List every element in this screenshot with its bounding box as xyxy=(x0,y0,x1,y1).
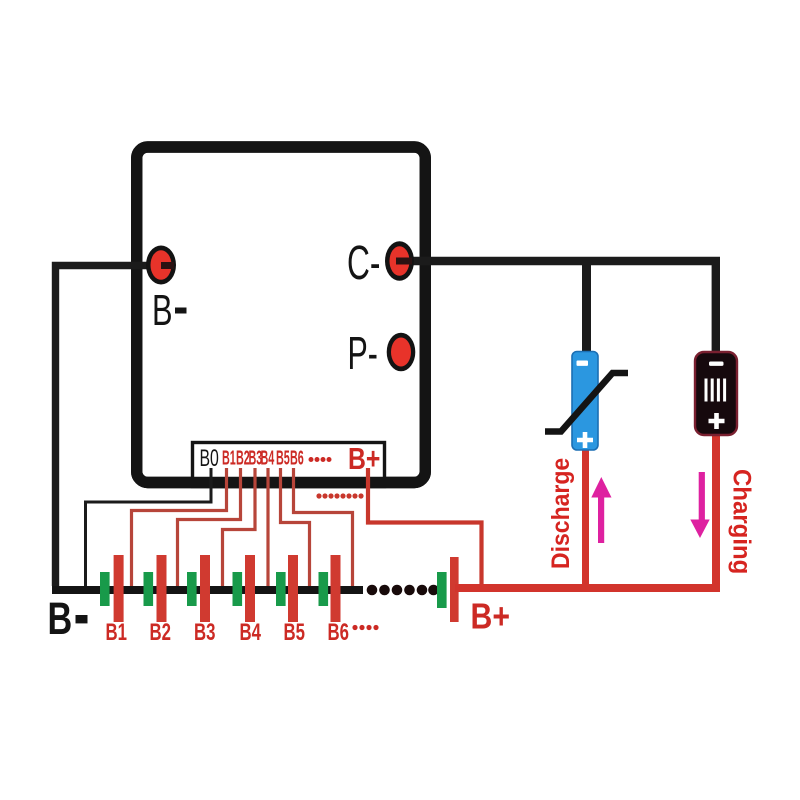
svg-text:B+: B+ xyxy=(348,441,380,475)
terminal C- xyxy=(385,241,414,281)
ellipsis dots battery string xyxy=(367,585,439,596)
arrow charging (down) xyxy=(690,472,709,538)
switch stroke on Q1 xyxy=(545,373,628,432)
svg-text:B2: B2 xyxy=(236,447,250,469)
cell B4 electrodes xyxy=(233,572,243,606)
board border over strip xyxy=(137,147,426,483)
svg-text:B3: B3 xyxy=(194,619,215,646)
svg-text:B: B xyxy=(152,287,173,336)
svg-text:B5: B5 xyxy=(276,447,290,469)
wire B5 sense xyxy=(281,468,310,586)
arrow discharge (up) xyxy=(591,477,611,543)
cell B1 electrodes xyxy=(100,572,110,606)
wire discharge to bus (red) xyxy=(582,448,589,588)
pin B0 stub xyxy=(210,468,213,486)
svg-text:B: B xyxy=(48,595,73,645)
svg-text:B6: B6 xyxy=(290,447,304,469)
svg-text:B4: B4 xyxy=(240,619,262,646)
svg-text:Charging: Charging xyxy=(727,469,755,574)
red bus B+ to charging xyxy=(455,433,716,588)
svg-text:B4: B4 xyxy=(261,447,275,469)
svg-text:B1: B1 xyxy=(222,447,236,469)
cell B3 electrodes xyxy=(187,572,197,606)
wire B2 sense xyxy=(178,468,241,586)
connector strip J1 xyxy=(193,443,385,487)
svg-text:B6: B6 xyxy=(328,619,349,646)
svg-text:B+: B+ xyxy=(471,597,510,637)
wire B3 sense xyxy=(223,468,256,586)
wire discharge branch xyxy=(582,261,591,352)
BMS board U1 xyxy=(137,147,426,483)
red dots row below strip xyxy=(316,493,363,498)
cell B5 electrodes xyxy=(276,572,286,606)
svg-text:B1: B1 xyxy=(106,619,127,646)
wire C- to charging branch (top rail) xyxy=(399,261,716,352)
svg-text:B0: B0 xyxy=(200,446,219,472)
svg-text:B2: B2 xyxy=(150,619,171,646)
cell Bn last electrodes xyxy=(437,572,447,608)
wire B1 sense xyxy=(132,468,227,586)
svg-text:B5: B5 xyxy=(284,619,305,646)
wire B4 sense xyxy=(266,468,269,586)
svg-text:Discharge: Discharge xyxy=(547,458,575,569)
cell B2 electrodes xyxy=(144,572,154,606)
cell B6 electrodes xyxy=(319,572,329,606)
svg-text:P-: P- xyxy=(348,329,378,380)
wire B0 sense xyxy=(86,480,212,588)
wire B+ from connector xyxy=(368,468,482,584)
battery label ellipsis dots xyxy=(352,625,378,630)
terminal P- xyxy=(387,333,416,372)
charger DC jack (black) xyxy=(695,352,737,435)
strip ellipsis dots xyxy=(309,457,332,462)
svg-text:C-: C- xyxy=(347,235,380,289)
wire B- terminal to left rail xyxy=(56,266,162,587)
battery string bus (black) xyxy=(52,586,363,594)
wire B6 sense xyxy=(294,468,353,586)
discharge MOSFET Q1 (blue) xyxy=(572,352,598,451)
terminal B- xyxy=(146,246,176,285)
